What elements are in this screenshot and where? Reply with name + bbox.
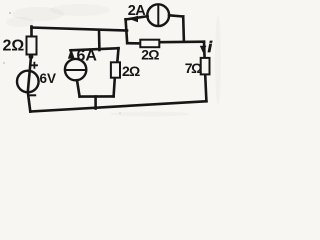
svg-text:2Ω: 2Ω <box>122 63 140 79</box>
wire 2R2 branch top <box>117 48 118 62</box>
resistor R3 2ohm horizontal <box>140 40 159 48</box>
current source I2 2A circle <box>147 4 169 26</box>
wire loop top left <box>126 16 148 19</box>
svg-text:6A: 6A <box>77 48 98 65</box>
wire loop left vertical <box>126 19 128 43</box>
wire bottom bar of middle pair <box>80 95 114 98</box>
wire right branch upper shaft <box>203 42 206 58</box>
wire right branch lower <box>205 74 206 101</box>
svg-text:2Ω: 2Ω <box>3 38 25 55</box>
bar inside 2A circle <box>157 5 159 27</box>
wire left mid (resistor to source) <box>28 55 31 112</box>
resistor R2 2ohm middle <box>111 62 120 77</box>
wire loop bottom left <box>127 42 140 45</box>
current source I2 2A arrow <box>129 16 138 23</box>
resistor R4 7ohm <box>201 58 210 75</box>
svg-text:6V: 6V <box>40 71 57 86</box>
wire 6A source to bottom bar <box>77 80 80 96</box>
arrow current i <box>200 46 207 53</box>
current source I1 6A arrow <box>68 49 75 59</box>
wire left top corner down <box>30 27 33 38</box>
wire top bar of middle pair <box>71 48 119 50</box>
scan smudge noise (decorative) <box>3 4 221 117</box>
svg-text:2Ω: 2Ω <box>141 47 159 63</box>
wire loop top right <box>169 15 183 16</box>
wire top main <box>32 28 128 31</box>
resistor R1 2ohm left <box>27 37 37 55</box>
bar inside 6A circle <box>65 69 86 71</box>
wire bottom main <box>30 101 206 111</box>
minus sign of 6V <box>30 94 37 96</box>
svg-text:7Ω: 7Ω <box>185 60 202 76</box>
plus sign of 6V <box>31 62 38 69</box>
wire bottom stem <box>94 97 97 109</box>
wire 2R2 branch bottom <box>114 78 115 97</box>
node dot left branch <box>29 54 34 59</box>
current source I1 6A circle <box>65 59 86 80</box>
wire loop right vertical <box>182 17 185 42</box>
voltage source U1 6V circle <box>17 71 39 93</box>
wire loop bottom right <box>159 40 204 43</box>
wire middle stem top <box>98 30 101 50</box>
